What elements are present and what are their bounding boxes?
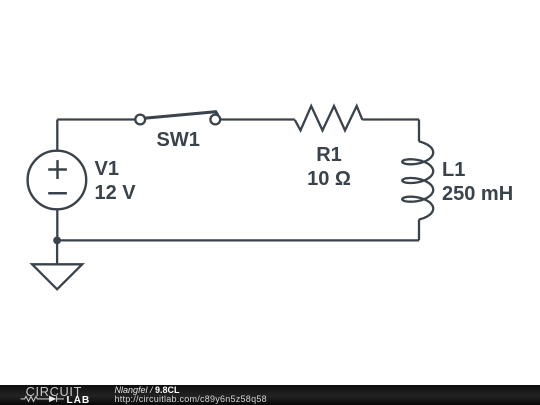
label L1 value: [442, 158, 513, 206]
wire left vertical (top): [56, 120, 58, 152]
wire right vertical (top): [418, 120, 420, 142]
wire bottom horizontal: [57, 239, 419, 241]
node junction dot: [53, 237, 61, 245]
voltage source V1 circle: [28, 151, 87, 210]
wire ground stem: [56, 240, 58, 264]
wire left vertical (bottom): [56, 209, 58, 240]
switch SW1 lever: [144, 112, 218, 119]
CircuitLab logo: [0, 385, 100, 405]
svg-text:LAB: LAB: [67, 395, 91, 405]
wire switch to resistor: [220, 118, 295, 120]
V1 plus sign: [48, 160, 67, 179]
wire top-left horizontal: [57, 118, 135, 120]
V1 minus sign: [48, 192, 67, 195]
switch SW1 terminal circle left: [135, 115, 145, 125]
wire right vertical (bottom): [418, 219, 420, 240]
label V1 value: [95, 157, 136, 205]
footer credit line: [115, 386, 267, 403]
wire resistor to corner: [362, 118, 419, 120]
label SW1: [157, 128, 200, 152]
switch SW1 terminal circle right: [210, 115, 220, 125]
resistor R1 zigzag: [295, 106, 363, 130]
label R1 value: [307, 143, 351, 191]
ground symbol: [32, 264, 82, 289]
footer bar: [0, 385, 540, 405]
inductor L1 coil: [402, 142, 433, 220]
